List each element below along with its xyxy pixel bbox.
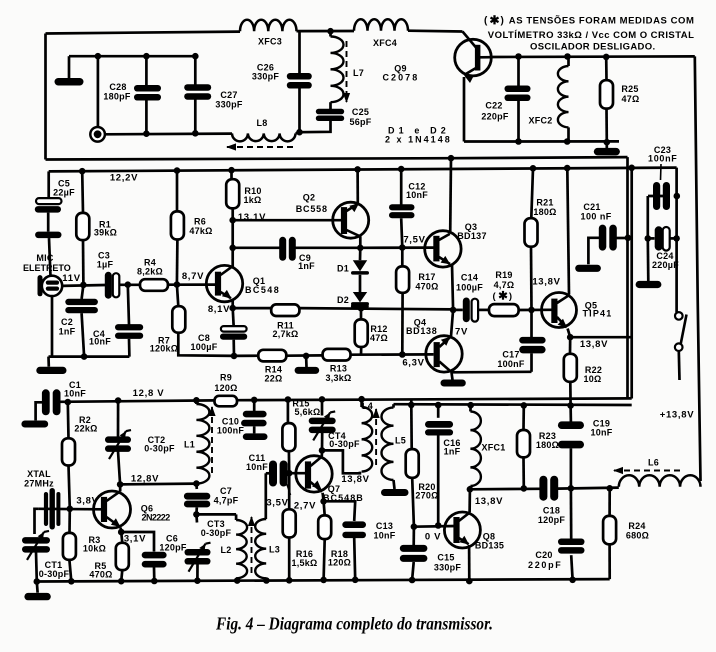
svg-text:330pF: 330pF: [252, 72, 280, 82]
svg-text:R9: R9: [220, 373, 232, 383]
svg-text:R17: R17: [418, 272, 435, 282]
svg-text:): ): [501, 15, 504, 26]
svg-text:XFC1: XFC1: [481, 443, 505, 453]
svg-text:100µF: 100µF: [191, 342, 218, 352]
svg-text:220pF: 220pF: [528, 560, 561, 570]
svg-text:22kΩ: 22kΩ: [74, 424, 97, 434]
svg-text:1kΩ: 1kΩ: [244, 195, 262, 205]
svg-text:100nF: 100nF: [217, 426, 245, 436]
svg-text:L5: L5: [395, 436, 406, 446]
svg-text:C22: C22: [485, 101, 502, 111]
svg-text:10nF: 10nF: [64, 389, 86, 399]
svg-text:XTAL: XTAL: [27, 469, 51, 479]
svg-text:100nF: 100nF: [648, 153, 677, 163]
svg-text:2,7kΩ: 2,7kΩ: [273, 329, 299, 339]
svg-text:13,8V: 13,8V: [580, 339, 608, 350]
svg-text:330pF: 330pF: [215, 100, 243, 110]
svg-text:270Ω: 270Ω: [415, 491, 438, 501]
svg-text:120Ω: 120Ω: [214, 383, 237, 393]
svg-text:C18: C18: [543, 506, 560, 516]
svg-text:47Ω: 47Ω: [622, 94, 640, 104]
svg-text:13,1V: 13,1V: [238, 212, 266, 223]
svg-text:13,8V: 13,8V: [341, 474, 369, 485]
svg-text:L1: L1: [184, 440, 195, 450]
svg-text:39kΩ: 39kΩ: [94, 228, 117, 238]
svg-text:180pF: 180pF: [103, 92, 131, 102]
svg-text:L7: L7: [353, 68, 364, 78]
svg-text:10kΩ: 10kΩ: [83, 544, 106, 554]
svg-text:10Ω: 10Ω: [584, 374, 602, 384]
svg-text:0-30pF: 0-30pF: [329, 439, 360, 449]
svg-text:R19: R19: [495, 270, 512, 280]
svg-text:3,3kΩ: 3,3kΩ: [326, 373, 352, 383]
svg-text:Fig. 4 – Diagrama completo do: Fig. 4 – Diagrama completo do transmisso…: [215, 614, 493, 634]
svg-text:3,5V: 3,5V: [266, 498, 288, 509]
svg-text:11V: 11V: [62, 273, 80, 284]
svg-text:0-30pF: 0-30pF: [39, 569, 70, 579]
svg-text:120kΩ: 120kΩ: [150, 344, 179, 354]
svg-text:MIC: MIC: [36, 253, 53, 263]
svg-text:470Ω: 470Ω: [415, 282, 438, 292]
svg-text:BC548B: BC548B: [323, 493, 363, 503]
svg-text:2N2222: 2N2222: [142, 513, 171, 523]
svg-text:7,5V: 7,5V: [403, 235, 425, 246]
svg-text:220pF: 220pF: [481, 112, 509, 122]
svg-text:C17: C17: [502, 350, 519, 360]
svg-text:R24: R24: [628, 521, 645, 531]
svg-text:L8: L8: [256, 118, 267, 128]
svg-text:C15: C15: [437, 553, 454, 563]
svg-text:220µF: 220µF: [652, 260, 679, 270]
svg-text:8,2kΩ: 8,2kΩ: [137, 267, 163, 277]
svg-text:10nF: 10nF: [406, 190, 428, 200]
svg-text:0-30pF: 0-30pF: [201, 528, 232, 538]
svg-text:BD137: BD137: [457, 231, 487, 241]
svg-text:TIP41: TIP41: [583, 309, 612, 319]
svg-text:100nF: 100nF: [497, 359, 525, 369]
svg-text:1nF: 1nF: [444, 447, 461, 457]
svg-text:680Ω: 680Ω: [626, 531, 649, 541]
svg-text:0-30pF: 0-30pF: [144, 443, 175, 453]
svg-text:BD135: BD135: [475, 541, 504, 551]
svg-text:22Ω: 22Ω: [265, 374, 283, 384]
svg-text:3,1V: 3,1V: [124, 534, 146, 545]
svg-text:C28: C28: [109, 82, 126, 92]
svg-text:8,7V: 8,7V: [182, 271, 204, 282]
svg-text:100µF: 100µF: [456, 283, 483, 293]
svg-text:120pF: 120pF: [538, 515, 566, 525]
svg-text:C2: C2: [61, 317, 73, 327]
svg-text:ELETRETO: ELETRETO: [23, 263, 71, 273]
svg-text:27MHz: 27MHz: [24, 479, 54, 489]
svg-text:XFC4: XFC4: [373, 38, 397, 48]
svg-text:1nF: 1nF: [298, 261, 315, 271]
svg-text:C27: C27: [220, 90, 237, 100]
svg-text:2,7V: 2,7V: [294, 501, 316, 512]
svg-text:470Ω: 470Ω: [89, 570, 112, 580]
svg-text:L2: L2: [220, 545, 231, 555]
svg-text:BC548: BC548: [245, 285, 279, 295]
svg-text:22µF: 22µF: [53, 188, 75, 198]
svg-text:1nF: 1nF: [59, 327, 76, 337]
svg-text:R21: R21: [536, 198, 553, 208]
svg-text:L4: L4: [362, 401, 373, 411]
svg-text:C25: C25: [352, 107, 369, 117]
svg-text:Q2: Q2: [303, 193, 316, 203]
svg-text:D2: D2: [337, 295, 349, 305]
svg-text:VOLTÍMETRO 33kΩ / Vcc COM O CR: VOLTÍMETRO 33kΩ / Vcc COM O CRISTAL: [488, 30, 695, 41]
svg-text:1µF: 1µF: [97, 260, 114, 270]
svg-text:AS TENSÕES FORAM MEDIDAS COM: AS TENSÕES FORAM MEDIDAS COM: [509, 15, 695, 26]
svg-text:100 nF: 100 nF: [581, 211, 612, 221]
svg-text:+13,8V: +13,8V: [660, 410, 695, 421]
svg-text:R13: R13: [330, 364, 347, 374]
svg-text:12,8 V: 12,8 V: [133, 388, 165, 399]
svg-text:L3: L3: [269, 545, 280, 555]
svg-text:): ): [509, 291, 512, 302]
svg-text:12,8V: 12,8V: [131, 474, 159, 485]
svg-text:C7: C7: [220, 486, 232, 496]
svg-text:OSCILADOR DESLIGADO.: OSCILADOR DESLIGADO.: [530, 41, 656, 52]
svg-text:6,3V: 6,3V: [402, 358, 424, 369]
svg-text:2 x 1N4148: 2 x 1N4148: [385, 135, 450, 145]
svg-text:10nF: 10nF: [89, 337, 111, 347]
svg-text:10nF: 10nF: [373, 531, 395, 541]
svg-text:8,1V: 8,1V: [208, 304, 230, 315]
svg-text:12,2V: 12,2V: [110, 173, 138, 184]
svg-text:R25: R25: [621, 84, 638, 94]
svg-text:L6: L6: [648, 458, 659, 468]
svg-text:13,8V: 13,8V: [475, 496, 503, 507]
svg-text:C13: C13: [376, 521, 393, 531]
svg-text:330pF: 330pF: [434, 563, 462, 573]
svg-text:D1: D1: [337, 264, 349, 274]
svg-text:3,8V: 3,8V: [76, 496, 98, 507]
svg-text:5,6kΩ: 5,6kΩ: [295, 407, 321, 417]
svg-text:4,7pF: 4,7pF: [214, 496, 239, 506]
svg-text:1,5kΩ: 1,5kΩ: [292, 558, 318, 568]
svg-text:XFC3: XFC3: [258, 37, 282, 47]
svg-text:120Ω: 120Ω: [328, 558, 351, 568]
svg-text:7V: 7V: [455, 327, 468, 338]
svg-text:C2078: C2078: [383, 72, 418, 82]
svg-text:R6: R6: [194, 217, 206, 227]
svg-text:120pF: 120pF: [159, 543, 187, 553]
svg-text:XFC2: XFC2: [528, 116, 552, 126]
svg-text:180Ω: 180Ω: [536, 440, 559, 450]
svg-text:10nF: 10nF: [246, 462, 268, 472]
svg-text:0 V: 0 V: [425, 532, 441, 543]
svg-text:47kΩ: 47kΩ: [189, 226, 212, 236]
svg-text:47Ω: 47Ω: [370, 333, 388, 343]
svg-text:C14: C14: [461, 273, 478, 283]
svg-text:4,7Ω: 4,7Ω: [494, 280, 515, 290]
svg-text:56pF: 56pF: [349, 117, 371, 127]
svg-text:C20: C20: [535, 550, 552, 560]
svg-text:13,8V: 13,8V: [532, 277, 560, 288]
svg-text:180Ω: 180Ω: [533, 207, 556, 217]
svg-text:BD138: BD138: [406, 326, 437, 336]
svg-text:BC558: BC558: [296, 204, 328, 214]
svg-text:10nF: 10nF: [590, 428, 612, 438]
